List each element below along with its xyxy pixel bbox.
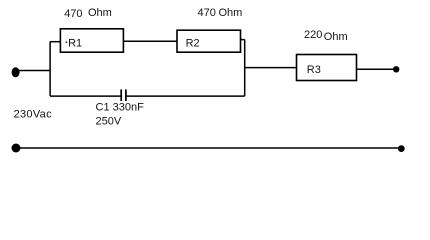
wire: live input terminal to node A [16, 70, 51, 72]
terminal dot: neutral bottom right [398, 145, 405, 152]
wire: right vertical branch (node B) [244, 40, 246, 97]
svg-text:Ohm: Ohm [219, 7, 243, 19]
svg-text:470: 470 [64, 8, 82, 20]
wire: bottom neutral return [16, 147, 400, 149]
wire: C1 right plate to node B [126, 95, 245, 97]
svg-text:250V: 250V [96, 116, 122, 128]
svg-text:Ohm: Ohm [324, 31, 348, 43]
svg-text:R3: R3 [307, 64, 321, 76]
resistor R1 body [60, 29, 123, 52]
wire: stub R2 pin 2 to node B [241, 39, 245, 41]
wire: stub node A to R1 pin 1 [50, 41, 60, 43]
svg-text:C1 330nF: C1 330nF [96, 102, 145, 114]
resistor R3 body [297, 55, 357, 81]
terminal dot: output right [393, 66, 399, 72]
svg-text:Ohm: Ohm [88, 7, 112, 19]
resistor R2 body [177, 30, 241, 52]
wire: node A to C1 left plate [50, 95, 121, 97]
svg-text:R1: R1 [68, 37, 82, 49]
wire: node B to R3 pin 1 [245, 67, 297, 69]
stray mark before R1 label [66, 41, 68, 43]
wire: left vertical branch (node A) [49, 42, 51, 96]
capacitor C1 left plate [120, 89, 122, 101]
terminal dot: neutral bottom left [12, 144, 21, 153]
capacitor C1 right plate [125, 89, 127, 101]
svg-text:R2: R2 [186, 38, 200, 50]
wire: R3 pin 2 to output terminal [357, 68, 397, 70]
wire: R1 pin 2 to R2 pin 1 [123, 40, 177, 42]
terminal dot: 230Vac live input [12, 67, 20, 77]
svg-text:230Vac: 230Vac [14, 108, 52, 120]
svg-text:220: 220 [304, 29, 322, 41]
svg-text:470: 470 [198, 7, 216, 19]
